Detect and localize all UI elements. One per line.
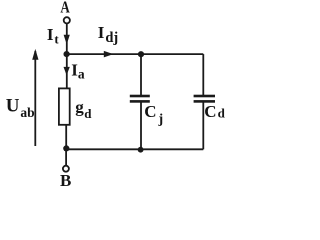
wire resistor to bottom node: [65, 125, 67, 149]
svg-text:gd: gd: [75, 97, 92, 121]
capacitor C_j: [130, 95, 150, 103]
wire A lead: [66, 24, 68, 52]
svg-text:Cd: Cd: [204, 102, 225, 121]
voltage arrowhead U_ab: [32, 49, 38, 60]
svg-text:Uab: Uab: [6, 96, 35, 120]
voltage arrow line U_ab: [34, 51, 36, 146]
terminal B: [63, 166, 69, 172]
wire Cj top lead: [140, 54, 142, 95]
wire top horizontal: [67, 53, 204, 55]
svg-text:It: It: [47, 25, 59, 47]
wire bottom node to B: [65, 148, 67, 165]
current arrow I_a: [64, 67, 70, 75]
resistor g_d: [59, 88, 70, 124]
wire Cd bottom lead: [202, 103, 204, 150]
svg-text:Idj: Idj: [98, 23, 119, 46]
wire Cj bottom lead: [140, 103, 142, 150]
svg-text:B: B: [60, 171, 71, 190]
junction node Cj top: [138, 51, 144, 57]
current arrow I_t: [64, 35, 70, 45]
wire Cd top lead: [202, 54, 204, 95]
node top junction: [64, 51, 70, 57]
svg-text:Cj: Cj: [144, 102, 163, 127]
junction node bottom left: [63, 145, 69, 151]
current arrow I_dj: [104, 51, 114, 58]
svg-text:Ia: Ia: [71, 61, 85, 82]
wire bottom horizontal: [66, 148, 203, 150]
terminal A: [64, 17, 70, 23]
wire node to resistor: [66, 54, 68, 89]
junction node Cj bottom: [138, 147, 144, 153]
capacitor C_d: [194, 95, 215, 103]
svg-text:A: A: [60, 0, 70, 16]
